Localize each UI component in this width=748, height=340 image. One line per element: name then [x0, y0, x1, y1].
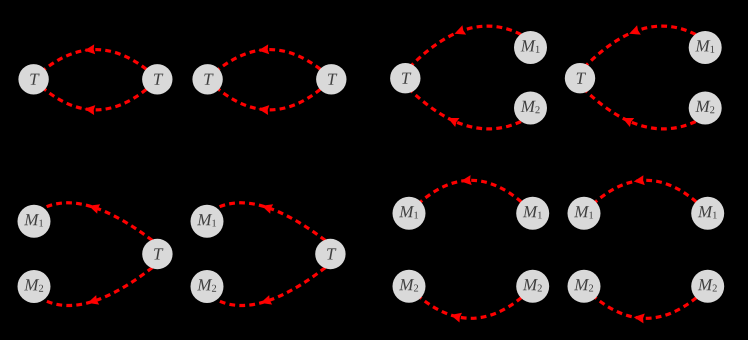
wire: lower arc T->M2 (diagram 5) — [43, 268, 152, 306]
wire: upper arc T->M1 (diagram 5) — [43, 203, 152, 241]
node M1 (diagram 4) — [689, 31, 722, 64]
wire: upper arc T->T (diagram 1) — [45, 50, 147, 70]
node M2 (diagram 3) — [514, 92, 547, 125]
node M2 (diagram 6) — [191, 270, 224, 303]
node M1 right (diagram 7) — [516, 197, 549, 230]
wire: lower arc M2->M2 (diagram 7) — [420, 298, 521, 319]
wire: lower arc T->M2 (diagram 6) — [216, 268, 325, 306]
node M1 left (diagram 7) — [393, 197, 426, 230]
wire: upper arc M1->M1 (diagram 8) — [595, 180, 696, 202]
node T left (diagram 1) — [18, 64, 48, 94]
arrowhead on lower arc M2->M2 (diagram 8) — [634, 314, 645, 324]
arrowhead on lower arc T->M2 (diagram 6) — [261, 295, 273, 305]
wire: lower arc M2->M2 (diagram 8) — [595, 298, 696, 319]
node T left (diagram 2) — [192, 64, 222, 94]
node M1 left (diagram 8) — [568, 197, 601, 230]
node M2 left (diagram 7) — [393, 270, 426, 303]
arrowhead on lower arc M2->T (diagram 4) — [623, 118, 635, 127]
node M2 right (diagram 7) — [516, 270, 549, 303]
node T right (diagram 1) — [142, 64, 172, 94]
node T (diagram 5) — [142, 239, 172, 269]
arrowhead on lower arc M2->M2 (diagram 7) — [451, 313, 462, 323]
arrowhead on lower arc M2->T (diagram 3) — [448, 118, 460, 127]
node T (diagram 6) — [315, 239, 345, 269]
node T (diagram 3) — [390, 63, 420, 93]
wire: lower arc T->T (diagram 1) — [45, 89, 147, 110]
arrowhead on upper arc T->T (diagram 2) — [258, 44, 269, 54]
wire: lower arc M2->T (diagram 4) — [586, 91, 695, 128]
arrowhead on lower arc T->T (diagram 1) — [84, 105, 95, 115]
wire: upper arc T->T (diagram 2) — [219, 50, 321, 70]
wire: upper arc M1->M1 (diagram 7) — [420, 180, 521, 202]
node M1 (diagram 5) — [18, 205, 51, 238]
node M1 right (diagram 8) — [691, 197, 724, 230]
wire: upper arc M1->T (diagram 4) — [586, 26, 695, 65]
node M2 (diagram 4) — [689, 92, 722, 125]
arrowhead on lower arc T->M2 (diagram 5) — [88, 295, 100, 305]
node M1 (diagram 6) — [191, 205, 224, 238]
node M2 right (diagram 8) — [691, 270, 724, 303]
wire: upper arc M1->T (diagram 3) — [412, 26, 521, 65]
node T right (diagram 2) — [316, 64, 346, 94]
node M2 left (diagram 8) — [568, 270, 601, 303]
arrowhead on upper arc T->T (diagram 1) — [84, 44, 95, 54]
arrowhead on upper arc M1->M1 (diagram 7) — [461, 175, 472, 185]
wire: lower arc T->T (diagram 2) — [219, 89, 321, 110]
node M2 (diagram 5) — [18, 270, 51, 303]
arrowhead on upper arc M1->T (diagram 3) — [455, 25, 467, 34]
arrowhead on upper arc T->M1 (diagram 6) — [262, 204, 274, 214]
arrowhead on lower arc T->T (diagram 2) — [258, 105, 269, 115]
wire: upper arc T->M1 (diagram 6) — [216, 203, 325, 241]
node M1 (diagram 3) — [514, 31, 547, 64]
node T (diagram 4) — [565, 63, 595, 93]
arrowhead on upper arc T->M1 (diagram 5) — [89, 204, 101, 214]
arrowhead on upper arc M1->T (diagram 4) — [629, 25, 641, 34]
wire: lower arc M2->T (diagram 3) — [412, 91, 521, 128]
arrowhead on upper arc M1->M1 (diagram 8) — [634, 175, 645, 185]
